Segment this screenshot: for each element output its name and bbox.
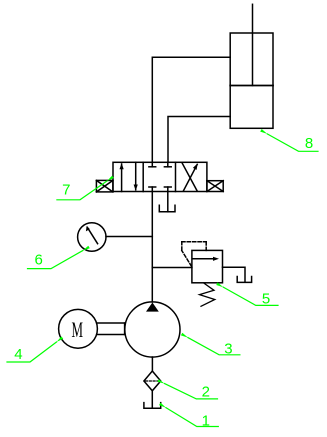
leader label 3 bbox=[188, 338, 240, 355]
wire valve T port to tank bbox=[167, 192, 169, 212]
svg-text:3: 3 bbox=[224, 340, 232, 357]
leader label 2 bbox=[165, 384, 218, 399]
relief valve 5 flow arrow bbox=[193, 258, 213, 260]
wire relief valve outlet bbox=[223, 267, 246, 282]
leader label 1 bbox=[166, 408, 218, 427]
valve 7 center position blocked port A top bbox=[151, 162, 153, 167]
leader label 7 bbox=[57, 181, 107, 200]
cylinder 8 piston bbox=[230, 85, 273, 87]
wire lower cylinder port to valve port B bbox=[168, 117, 230, 163]
wire gauge to main line bbox=[106, 236, 152, 238]
valve 7 left position up arrow bbox=[121, 164, 123, 192]
svg-text:7: 7 bbox=[62, 182, 70, 199]
tank at relief valve outlet bbox=[237, 277, 251, 283]
pump 3 circle bbox=[125, 302, 180, 357]
filter 2 element (dashed) bbox=[146, 380, 160, 382]
motor 4 circle bbox=[59, 309, 98, 348]
tank 1 bbox=[144, 403, 161, 409]
relief valve 5 spring bbox=[200, 283, 215, 306]
relief valve 5 pilot line (dashed) bbox=[182, 242, 206, 266]
svg-text:5: 5 bbox=[262, 290, 270, 307]
svg-text:6: 6 bbox=[35, 252, 43, 269]
leader label 6 bbox=[28, 251, 83, 269]
svg-text:2: 2 bbox=[202, 383, 210, 400]
tank under valve bbox=[159, 205, 175, 212]
cylinder 8 body bbox=[230, 33, 273, 128]
wire main line to relief valve bbox=[152, 267, 192, 269]
leader label 5 bbox=[223, 287, 278, 305]
valve 7 right solenoid box bbox=[207, 181, 223, 192]
wire filter to tank bbox=[151, 391, 153, 408]
relief valve 5 body bbox=[192, 250, 223, 282]
valve 7 body bbox=[113, 162, 207, 191]
pressure gauge 6 bbox=[78, 223, 106, 251]
leader label 4 bbox=[7, 342, 57, 362]
pump 3 outlet triangle bbox=[146, 303, 159, 312]
filter 2 diamond bbox=[144, 371, 161, 391]
cylinder 8 rod bbox=[252, 4, 254, 85]
svg-text:8: 8 bbox=[305, 135, 313, 152]
valve 7 right position cross path bbox=[182, 163, 197, 191]
valve 7 left position down arrow bbox=[135, 162, 137, 190]
valve 7 divider left bbox=[142, 162, 144, 191]
wire upper cylinder port to valve port A bbox=[152, 57, 230, 162]
svg-text:4: 4 bbox=[14, 346, 22, 363]
valve 7 center position blocked port T bottom bbox=[167, 187, 169, 192]
valve 7 center position blocked port B top bbox=[167, 162, 169, 167]
coupling motor to pump bbox=[98, 322, 125, 324]
leader label 8 bbox=[267, 134, 318, 151]
svg-text:1: 1 bbox=[202, 412, 210, 429]
valve 7 divider right bbox=[175, 162, 177, 191]
svg-text:M: M bbox=[71, 317, 83, 342]
valve 7 center position blocked port P bottom bbox=[151, 187, 153, 192]
wire pump suction to filter bbox=[151, 357, 153, 371]
valve 7 left solenoid box bbox=[96, 180, 113, 192]
wire main pressure line pump to valve bbox=[151, 192, 153, 303]
